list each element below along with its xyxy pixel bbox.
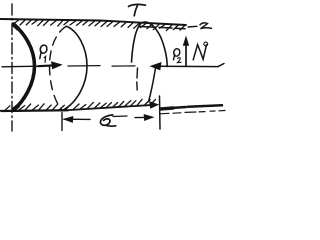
label p1: [40, 45, 47, 58]
wavefront 2 lower left dashes: [136, 68, 139, 90]
wire mid axis dashes: [112, 65, 135, 67]
arrow at right end of bottom wall: [137, 104, 150, 107]
top wall break squiggle z: [200, 23, 212, 29]
label p2: [174, 49, 180, 60]
arrowhead reflected wave (points left): [151, 63, 162, 70]
arrowhead p1 (points right): [52, 62, 62, 69]
dimension dashes middle: [113, 115, 127, 118]
wire mid axis left segment (p1 arrow shaft): [2, 65, 38, 68]
wire top wall line: [0, 19, 186, 25]
wire bottom wall line: [0, 105, 150, 111]
bold left arc wavefront: [14, 24, 35, 110]
wavefront 2 lower right arc: [149, 68, 156, 102]
dimension extension line right: [159, 96, 162, 129]
top wall hatching: [14, 20, 186, 31]
wavefront 2 solid arch: [132, 22, 168, 67]
wavefront ellipse 1 dashed left half: [50, 26, 67, 110]
dimension arrow left (points left): [64, 118, 90, 120]
label N0: [193, 45, 206, 60]
wire mid axis between wavefronts: [68, 65, 100, 67]
wavefront ellipse 1 solid right half: [63, 26, 88, 110]
dimension extension line left: [61, 113, 63, 131]
bottom wall continuation light dashes below: [160, 111, 225, 114]
label l (length): [100, 115, 112, 125]
bottom wall hatching: [5, 99, 156, 110]
top wall break mark (dash): [188, 25, 197, 28]
bottom wall continuation bold dashes right: [161, 105, 223, 109]
left dash-dot axis line: [11, 4, 13, 131]
arrow p2 vertical (points up): [185, 44, 187, 66]
label T: [129, 4, 146, 6]
wire mid axis right segment: [158, 64, 224, 67]
dimension arrow right (points right): [135, 116, 146, 118]
top wall rough under-line right part: [140, 27, 185, 29]
